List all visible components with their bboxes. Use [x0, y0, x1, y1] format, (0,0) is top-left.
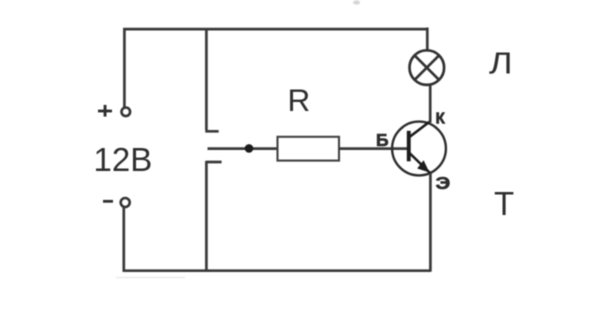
transistor base bar — [407, 131, 411, 162]
transistor VT1 body circle — [392, 122, 446, 176]
svg-text:R: R — [288, 82, 311, 118]
wire collector to lamp — [429, 86, 432, 123]
svg-text:Л: Л — [489, 47, 513, 81]
label - (negative) — [103, 200, 113, 203]
wire left upper (top rail to + terminal) — [123, 28, 126, 107]
transistor emitter stroke — [410, 153, 431, 174]
wire bottom rail — [123, 269, 431, 272]
wire emitter to bottom rail — [429, 173, 432, 272]
battery negative terminal — [121, 198, 130, 207]
wire top rail — [123, 28, 428, 31]
lamp cross stroke 1 — [415, 55, 439, 79]
resistor R (body) — [278, 137, 340, 161]
svg-text:Т: Т — [494, 185, 514, 222]
battery positive terminal — [122, 108, 131, 117]
svg-text:К: К — [436, 111, 446, 128]
wire top rail corner down to lamp — [426, 28, 429, 51]
svg-text:Б: Б — [376, 130, 389, 150]
svg-text:12В: 12В — [94, 141, 153, 178]
wire left lower (- terminal to bottom rail) — [122, 208, 125, 272]
label + (positive) — [98, 105, 112, 117]
connector upper contact (vertical from top rail with tick) — [205, 28, 218, 131]
junction dot — [245, 144, 254, 153]
connector lower contact (tick with vertical to bottom rail) — [206, 161, 222, 272]
wire connector pole to resistor — [208, 147, 279, 150]
transistor emitter arrowhead — [417, 160, 429, 172]
wire resistor to transistor base — [339, 147, 407, 150]
lamp Л body circle — [410, 50, 445, 85]
svg-text:Э: Э — [436, 173, 451, 193]
lamp cross stroke 2 — [415, 55, 439, 79]
transistor collector stroke — [410, 121, 431, 137]
